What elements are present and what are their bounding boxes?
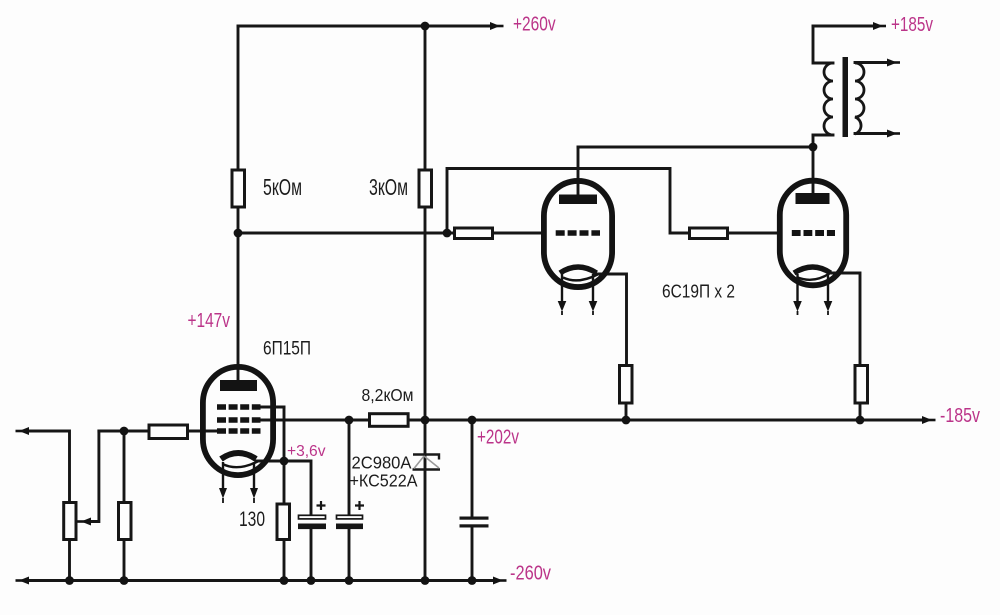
svg-text:+КС522А: +КС522А (350, 471, 418, 491)
svg-text:+3,6v: +3,6v (287, 443, 326, 460)
svg-text:-185v: -185v (940, 404, 981, 427)
svg-text:+260v: +260v (513, 13, 556, 36)
svg-text:130: 130 (239, 508, 265, 531)
svg-text:-260v: -260v (510, 562, 552, 585)
svg-text:6С19П x 2: 6С19П x 2 (662, 281, 735, 302)
svg-text:+147v: +147v (188, 309, 231, 332)
svg-text:2С980А: 2С980А (352, 453, 412, 473)
svg-text:8,2кОм: 8,2кОм (362, 385, 414, 405)
svg-text:6П15П: 6П15П (263, 339, 311, 360)
svg-text:+185v: +185v (891, 13, 934, 36)
svg-text:3кОм: 3кОм (369, 174, 408, 200)
svg-text:5кОм: 5кОм (263, 174, 302, 200)
svg-text:+202v: +202v (477, 426, 520, 449)
